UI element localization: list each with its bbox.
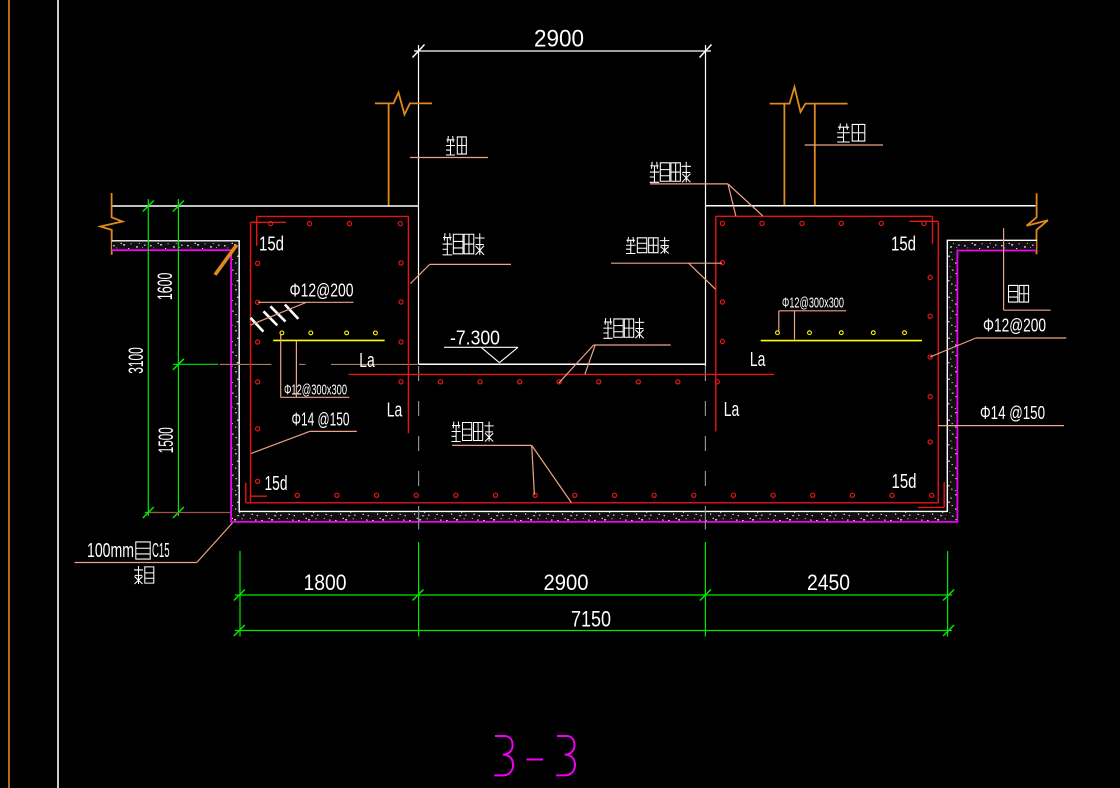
svg-text:Φ14 @150: Φ14 @150: [980, 403, 1045, 423]
svg-text:2450: 2450: [807, 570, 850, 595]
svg-text:15d: 15d: [891, 234, 916, 256]
svg-text:100mm: 100mm: [87, 540, 134, 562]
svg-text:La: La: [387, 398, 403, 421]
svg-text:C15: C15: [152, 540, 170, 562]
svg-text:2900: 2900: [544, 570, 589, 595]
svg-text:15d: 15d: [892, 471, 917, 493]
svg-text:La: La: [359, 349, 375, 372]
svg-text:1600: 1600: [154, 273, 177, 301]
svg-text:Φ12@300x300: Φ12@300x300: [782, 294, 844, 311]
svg-text:Φ12@200: Φ12@200: [983, 315, 1046, 335]
svg-text:2900: 2900: [534, 26, 584, 53]
svg-text:3100: 3100: [125, 347, 148, 374]
svg-text:15d: 15d: [259, 233, 284, 255]
svg-text:Φ12@200: Φ12@200: [290, 281, 354, 301]
svg-text:1500: 1500: [155, 427, 178, 453]
svg-text:Φ12@300x300: Φ12@300x300: [284, 382, 347, 399]
svg-text:La: La: [724, 398, 740, 421]
svg-text:Φ14 @150: Φ14 @150: [292, 410, 350, 430]
svg-text:7150: 7150: [571, 607, 611, 632]
svg-text:15d: 15d: [265, 473, 288, 495]
svg-text:1800: 1800: [304, 570, 347, 595]
svg-text:La: La: [750, 348, 766, 371]
svg-text:-7.300: -7.300: [450, 328, 500, 350]
